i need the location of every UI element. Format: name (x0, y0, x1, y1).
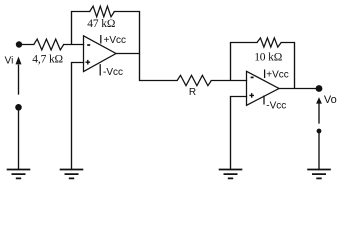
svg-text:47 kΩ: 47 kΩ (87, 18, 115, 30)
svg-text:+Vcc: +Vcc (266, 70, 289, 81)
svg-text:10 kΩ: 10 kΩ (254, 52, 282, 64)
svg-text:4,7 kΩ: 4,7 kΩ (32, 53, 63, 65)
svg-text:+Vcc: +Vcc (104, 35, 127, 46)
svg-text:-Vcc: -Vcc (103, 67, 123, 78)
svg-text:Vi: Vi (5, 55, 14, 66)
svg-text:Vo: Vo (324, 94, 337, 106)
svg-text:R: R (189, 87, 196, 98)
svg-text:-Vcc: -Vcc (266, 100, 286, 111)
